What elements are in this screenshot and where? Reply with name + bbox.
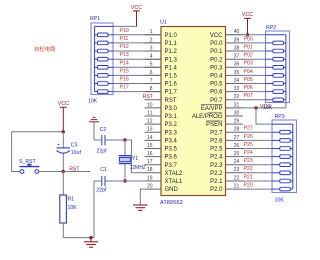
svg-text:12MHZ: 12MHZ xyxy=(130,165,146,171)
svg-text:30: 30 xyxy=(234,110,240,116)
wire reset loop left side xyxy=(11,132,13,172)
svg-text:P05: P05 xyxy=(244,77,253,83)
node ground rail junction xyxy=(89,236,92,239)
svg-text:32: 32 xyxy=(234,94,240,100)
svg-text:10: 10 xyxy=(147,102,153,108)
ground (IC pin 20) xyxy=(133,205,147,211)
power VCC symbol (reset circuit) xyxy=(58,101,69,132)
svg-text:P0.1: P0.1 xyxy=(210,49,223,55)
svg-text:6: 6 xyxy=(150,70,153,76)
capacitor C2 xyxy=(94,127,125,154)
resistor pack RP2 label xyxy=(266,25,276,31)
svg-text:P2.0: P2.0 xyxy=(210,187,223,193)
net label P02 xyxy=(244,53,253,59)
svg-text:10K: 10K xyxy=(88,99,98,105)
svg-text:C2: C2 xyxy=(100,127,107,133)
svg-text:35: 35 xyxy=(234,70,240,76)
wire VCC pin 40 net xyxy=(226,34,266,36)
svg-text:4: 4 xyxy=(150,54,153,60)
svg-text:P00: P00 xyxy=(244,36,253,42)
RP1 value label xyxy=(88,99,98,105)
svg-text:10K: 10K xyxy=(68,205,78,211)
svg-text:RST: RST xyxy=(165,98,177,104)
svg-text:VCC: VCC xyxy=(210,33,223,39)
RP2 resistor element 3 xyxy=(266,57,286,61)
svg-text:P2.2: P2.2 xyxy=(210,171,223,177)
net label RST (reset node) xyxy=(69,167,80,173)
svg-text:AT89S52: AT89S52 xyxy=(160,200,183,206)
svg-text:P0.3: P0.3 xyxy=(210,65,223,71)
crystal Y1 xyxy=(119,140,146,181)
svg-text:P15: P15 xyxy=(120,68,129,74)
wire P26 net xyxy=(243,139,272,141)
RP3 resistor element 3 xyxy=(272,147,293,151)
svg-text:P24: P24 xyxy=(244,150,253,156)
RP3 resistor element 1 xyxy=(272,130,293,134)
svg-text:12: 12 xyxy=(147,119,153,125)
wire XTAL1 net xyxy=(125,180,145,182)
capacitor C1 xyxy=(94,167,125,193)
IC U1 pin names xyxy=(165,33,224,193)
svg-text:P0.4: P0.4 xyxy=(210,74,223,80)
power VCC symbol (pin 40) xyxy=(242,12,253,35)
svg-text:37: 37 xyxy=(234,54,240,60)
wire C1 to ground rail xyxy=(93,181,95,238)
svg-text:RST: RST xyxy=(143,94,153,100)
svg-text:P04: P04 xyxy=(244,69,253,75)
RP1 resistor element 4 xyxy=(95,57,113,61)
RP1 resistor element 6 xyxy=(95,74,113,78)
ground (reset circuit) xyxy=(84,238,98,248)
svg-text:P1.7: P1.7 xyxy=(165,90,178,96)
svg-text:27: 27 xyxy=(234,135,240,141)
wire VCC to reset loop xyxy=(12,131,64,133)
svg-text:P23: P23 xyxy=(244,158,253,164)
wire P16 net xyxy=(113,83,161,85)
IC U1 pin numbers xyxy=(147,29,240,189)
net label P26 xyxy=(244,134,253,140)
svg-text:P17: P17 xyxy=(120,85,129,91)
svg-text:C1: C1 xyxy=(100,167,107,173)
svg-text:VCC: VCC xyxy=(58,101,69,107)
svg-text:P02: P02 xyxy=(244,53,253,59)
svg-text:P0.6: P0.6 xyxy=(210,90,223,96)
net label P06 xyxy=(244,85,253,91)
net label P27 xyxy=(244,126,253,132)
net label P25 xyxy=(244,142,253,148)
svg-text:P20: P20 xyxy=(244,183,253,189)
net label P01 xyxy=(244,44,253,50)
resistor R1 xyxy=(60,172,77,238)
wire button right terminal to RST node xyxy=(39,171,64,173)
net label 10K (RP2 value) xyxy=(263,105,273,111)
svg-text:P3.2: P3.2 xyxy=(165,122,178,128)
wire RP2 common to EA net xyxy=(285,100,287,108)
svg-text:20: 20 xyxy=(147,184,153,190)
RP3 resistor element 8 xyxy=(272,187,293,191)
svg-text:P22: P22 xyxy=(244,166,253,172)
wire EA junction to RP3 common xyxy=(256,108,272,124)
svg-text:P2.7: P2.7 xyxy=(210,130,223,136)
svg-text:P3.0: P3.0 xyxy=(165,106,178,112)
wire P21 net xyxy=(243,180,272,182)
resistor pack RP2 body xyxy=(266,31,290,103)
net label P14 xyxy=(120,60,129,66)
annotation chinese text xyxy=(34,45,56,53)
svg-text:P1.4: P1.4 xyxy=(165,65,178,71)
RP2 resistor element 1 xyxy=(266,41,286,45)
resistor pack RP3 body xyxy=(272,120,297,193)
net label VCC (EA net) xyxy=(260,104,271,110)
RP1 resistor element 3 xyxy=(95,49,113,53)
RP1 resistor element 2 xyxy=(95,41,113,45)
node XTAL1 junction xyxy=(123,179,126,182)
node EA junction xyxy=(254,106,257,109)
svg-text:P0.2: P0.2 xyxy=(210,57,223,63)
svg-text:29: 29 xyxy=(234,119,240,125)
svg-text:10K: 10K xyxy=(263,105,273,111)
svg-text:P06: P06 xyxy=(244,85,253,91)
wire P25 net xyxy=(243,148,272,150)
svg-text:P1.1: P1.1 xyxy=(165,41,178,47)
RP1 resistor element 5 xyxy=(95,66,113,70)
wire to button left terminal xyxy=(12,171,20,173)
RP2 resistor element 4 xyxy=(266,66,286,70)
IC U1 designator xyxy=(160,20,167,26)
net label P05 xyxy=(244,77,253,83)
svg-text:16: 16 xyxy=(147,151,153,157)
svg-text:5: 5 xyxy=(150,62,153,68)
wire P22 net xyxy=(243,172,272,174)
svg-text:22pf: 22pf xyxy=(96,187,107,193)
svg-text:28: 28 xyxy=(234,127,240,133)
wire P10 net xyxy=(113,34,161,36)
net label P20 xyxy=(244,183,253,189)
net label P16 xyxy=(120,77,129,83)
wire P07 net xyxy=(243,99,266,101)
resistor pack RP3 label xyxy=(275,114,285,120)
svg-text:21: 21 xyxy=(234,184,240,190)
svg-text:34: 34 xyxy=(234,78,240,84)
node reset top junction xyxy=(62,130,65,133)
wire P13 net xyxy=(113,58,161,60)
svg-text:P1.0: P1.0 xyxy=(165,33,178,39)
node VCC pin40 junction xyxy=(246,33,249,36)
svg-text:P2.1: P2.1 xyxy=(210,179,223,185)
RP3 resistor element 5 xyxy=(272,163,293,167)
wire P20 net xyxy=(243,188,272,190)
wire P05 net xyxy=(243,83,266,85)
wire XTAL2 net xyxy=(125,140,145,173)
svg-text:ALE/PROG: ALE/PROG xyxy=(192,114,223,120)
net label P03 xyxy=(244,61,253,67)
net label P24 xyxy=(244,150,253,156)
RP2 common rail xyxy=(266,35,286,100)
node RST junction xyxy=(62,170,65,173)
RP2 resistor element 8 xyxy=(266,98,286,102)
net label P07 xyxy=(244,93,253,99)
svg-text:P3.6: P3.6 xyxy=(165,155,178,161)
svg-text:18: 18 xyxy=(147,167,153,173)
wire P03 net xyxy=(243,66,266,68)
wire P27 net xyxy=(243,131,272,133)
svg-text:P2.3: P2.3 xyxy=(210,163,223,169)
net label P13 xyxy=(120,52,129,58)
RP3 resistor element 4 xyxy=(272,155,293,159)
svg-text:P21: P21 xyxy=(244,174,253,180)
wire P17 net xyxy=(113,91,161,93)
net label P23 xyxy=(244,158,253,164)
node XTAL2 junction xyxy=(123,138,126,141)
svg-text:38: 38 xyxy=(234,45,240,51)
wire P00 net xyxy=(243,42,266,44)
svg-text:13: 13 xyxy=(147,127,153,133)
svg-text:P1.2: P1.2 xyxy=(165,49,178,55)
net label P04 xyxy=(244,69,253,75)
svg-text:23: 23 xyxy=(234,167,240,173)
svg-text:19: 19 xyxy=(147,175,153,181)
net label P21 xyxy=(244,174,253,180)
RP3 common rail xyxy=(272,124,293,189)
wire ground rail xyxy=(63,237,94,239)
net label P15 xyxy=(120,68,129,74)
net label P10 xyxy=(120,28,129,34)
svg-text:P0.0: P0.0 xyxy=(210,41,223,47)
svg-text:14: 14 xyxy=(147,135,153,141)
svg-text:22pf: 22pf xyxy=(97,149,108,155)
svg-text:P3.3: P3.3 xyxy=(165,130,178,136)
net label P00 xyxy=(244,36,253,42)
RP1 resistor element 8 xyxy=(95,90,113,94)
wire P12 net xyxy=(113,50,161,52)
svg-text:P1.5: P1.5 xyxy=(165,74,178,80)
svg-text:P25: P25 xyxy=(244,142,253,148)
svg-text:RP3: RP3 xyxy=(275,114,285,120)
RP3 resistor element 6 xyxy=(272,171,293,175)
wire P01 net xyxy=(243,50,266,52)
svg-text:XTAL1: XTAL1 xyxy=(165,179,184,185)
svg-text:P3.7: P3.7 xyxy=(165,163,178,169)
svg-text:自检电路: 自检电路 xyxy=(34,45,56,53)
svg-text:25: 25 xyxy=(234,151,240,157)
svg-text:RP2: RP2 xyxy=(266,25,276,31)
svg-text:RP1: RP1 xyxy=(90,16,100,22)
RP3 value label xyxy=(275,198,285,204)
svg-text:P14: P14 xyxy=(120,60,129,66)
wire P24 net xyxy=(243,156,272,158)
wire VCC to RP1 common xyxy=(113,25,137,27)
resistor pack RP1 body xyxy=(91,23,113,95)
wire P11 net xyxy=(113,42,161,44)
svg-text:VCC: VCC xyxy=(131,5,142,11)
RP2 resistor element 5 xyxy=(266,74,286,78)
svg-text:15: 15 xyxy=(147,143,153,149)
net label P11 xyxy=(120,36,129,42)
svg-text:10K: 10K xyxy=(275,198,285,204)
resistor pack RP1 label xyxy=(90,16,100,22)
RP2 resistor element 2 xyxy=(266,49,286,53)
svg-text:22: 22 xyxy=(234,175,240,181)
svg-text:P11: P11 xyxy=(120,36,129,42)
IC U1 body xyxy=(161,27,226,196)
IC U1 part number xyxy=(160,200,183,206)
svg-text:17: 17 xyxy=(147,159,153,165)
net label P12 xyxy=(120,44,129,50)
RP1 resistor element 1 xyxy=(95,33,113,37)
pushbutton S_RST xyxy=(19,159,39,173)
RP1 common rail xyxy=(95,26,113,91)
svg-text:GND: GND xyxy=(165,187,179,193)
svg-text:P2.5: P2.5 xyxy=(210,147,223,153)
svg-text:26: 26 xyxy=(234,143,240,149)
wire RST stub xyxy=(63,171,90,173)
svg-text:36: 36 xyxy=(234,62,240,68)
RP3 resistor element 2 xyxy=(272,139,293,143)
svg-text:P1.3: P1.3 xyxy=(165,57,178,63)
RP2 resistor element 6 xyxy=(266,82,286,86)
RP3 resistor element 7 xyxy=(272,179,293,183)
svg-text:3: 3 xyxy=(150,45,153,51)
wire P02 net xyxy=(243,58,266,60)
svg-text:U1: U1 xyxy=(160,20,167,26)
svg-text:11: 11 xyxy=(147,110,152,116)
svg-text:P0.7: P0.7 xyxy=(210,98,223,104)
wire P14 net xyxy=(113,66,161,68)
svg-text:24: 24 xyxy=(234,159,240,165)
svg-text:P26: P26 xyxy=(244,134,253,140)
svg-text:VCC: VCC xyxy=(242,12,253,18)
net label P17 xyxy=(120,85,129,91)
svg-text:Y1: Y1 xyxy=(132,156,138,162)
svg-text:1: 1 xyxy=(150,29,153,35)
svg-text:P0.5: P0.5 xyxy=(210,82,223,88)
net label P22 xyxy=(244,166,253,172)
svg-text:P13: P13 xyxy=(120,52,129,58)
wire P23 net xyxy=(243,164,272,166)
wire P04 net xyxy=(243,74,266,76)
svg-text:P3.1: P3.1 xyxy=(165,114,178,120)
svg-text:PSEN: PSEN xyxy=(206,122,222,128)
svg-text:P12: P12 xyxy=(120,44,129,50)
svg-text:7: 7 xyxy=(150,78,153,84)
IC U1 pin stubs xyxy=(145,35,244,189)
svg-text:XTAL2: XTAL2 xyxy=(165,171,184,177)
svg-text:R1: R1 xyxy=(68,196,75,202)
svg-text:P3.5: P3.5 xyxy=(165,147,178,153)
svg-text:P10: P10 xyxy=(120,28,129,34)
power VCC symbol (RP1) xyxy=(131,5,142,26)
RP2 resistor element 7 xyxy=(266,90,286,94)
wire EA/VPP pull-up xyxy=(226,107,286,109)
svg-text:EA/VPP: EA/VPP xyxy=(201,106,223,112)
svg-text:8: 8 xyxy=(150,86,153,92)
svg-text:10uf: 10uf xyxy=(71,150,82,156)
svg-text:P1.6: P1.6 xyxy=(165,82,178,88)
svg-text:P01: P01 xyxy=(244,44,253,50)
svg-text:P07: P07 xyxy=(244,93,253,99)
svg-text:33: 33 xyxy=(234,86,240,92)
capacitor C3 xyxy=(57,132,82,172)
svg-text:P3.4: P3.4 xyxy=(165,139,178,145)
wire P15 net xyxy=(113,74,161,76)
svg-text:P16: P16 xyxy=(120,77,129,83)
svg-text:39: 39 xyxy=(234,37,240,43)
svg-text:P2.4: P2.4 xyxy=(210,155,223,161)
svg-text:P2.6: P2.6 xyxy=(210,139,223,145)
wire GND pin 20 xyxy=(140,189,144,205)
svg-text:P03: P03 xyxy=(244,61,253,67)
net label RST (pin 9) xyxy=(143,94,153,100)
svg-text:C3: C3 xyxy=(71,143,78,149)
svg-text:2: 2 xyxy=(150,37,153,43)
RP1 resistor element 7 xyxy=(95,82,113,86)
svg-text:P27: P27 xyxy=(244,126,253,132)
wire P06 net xyxy=(243,91,266,93)
ground (crystal caps, flipped) xyxy=(89,117,99,140)
